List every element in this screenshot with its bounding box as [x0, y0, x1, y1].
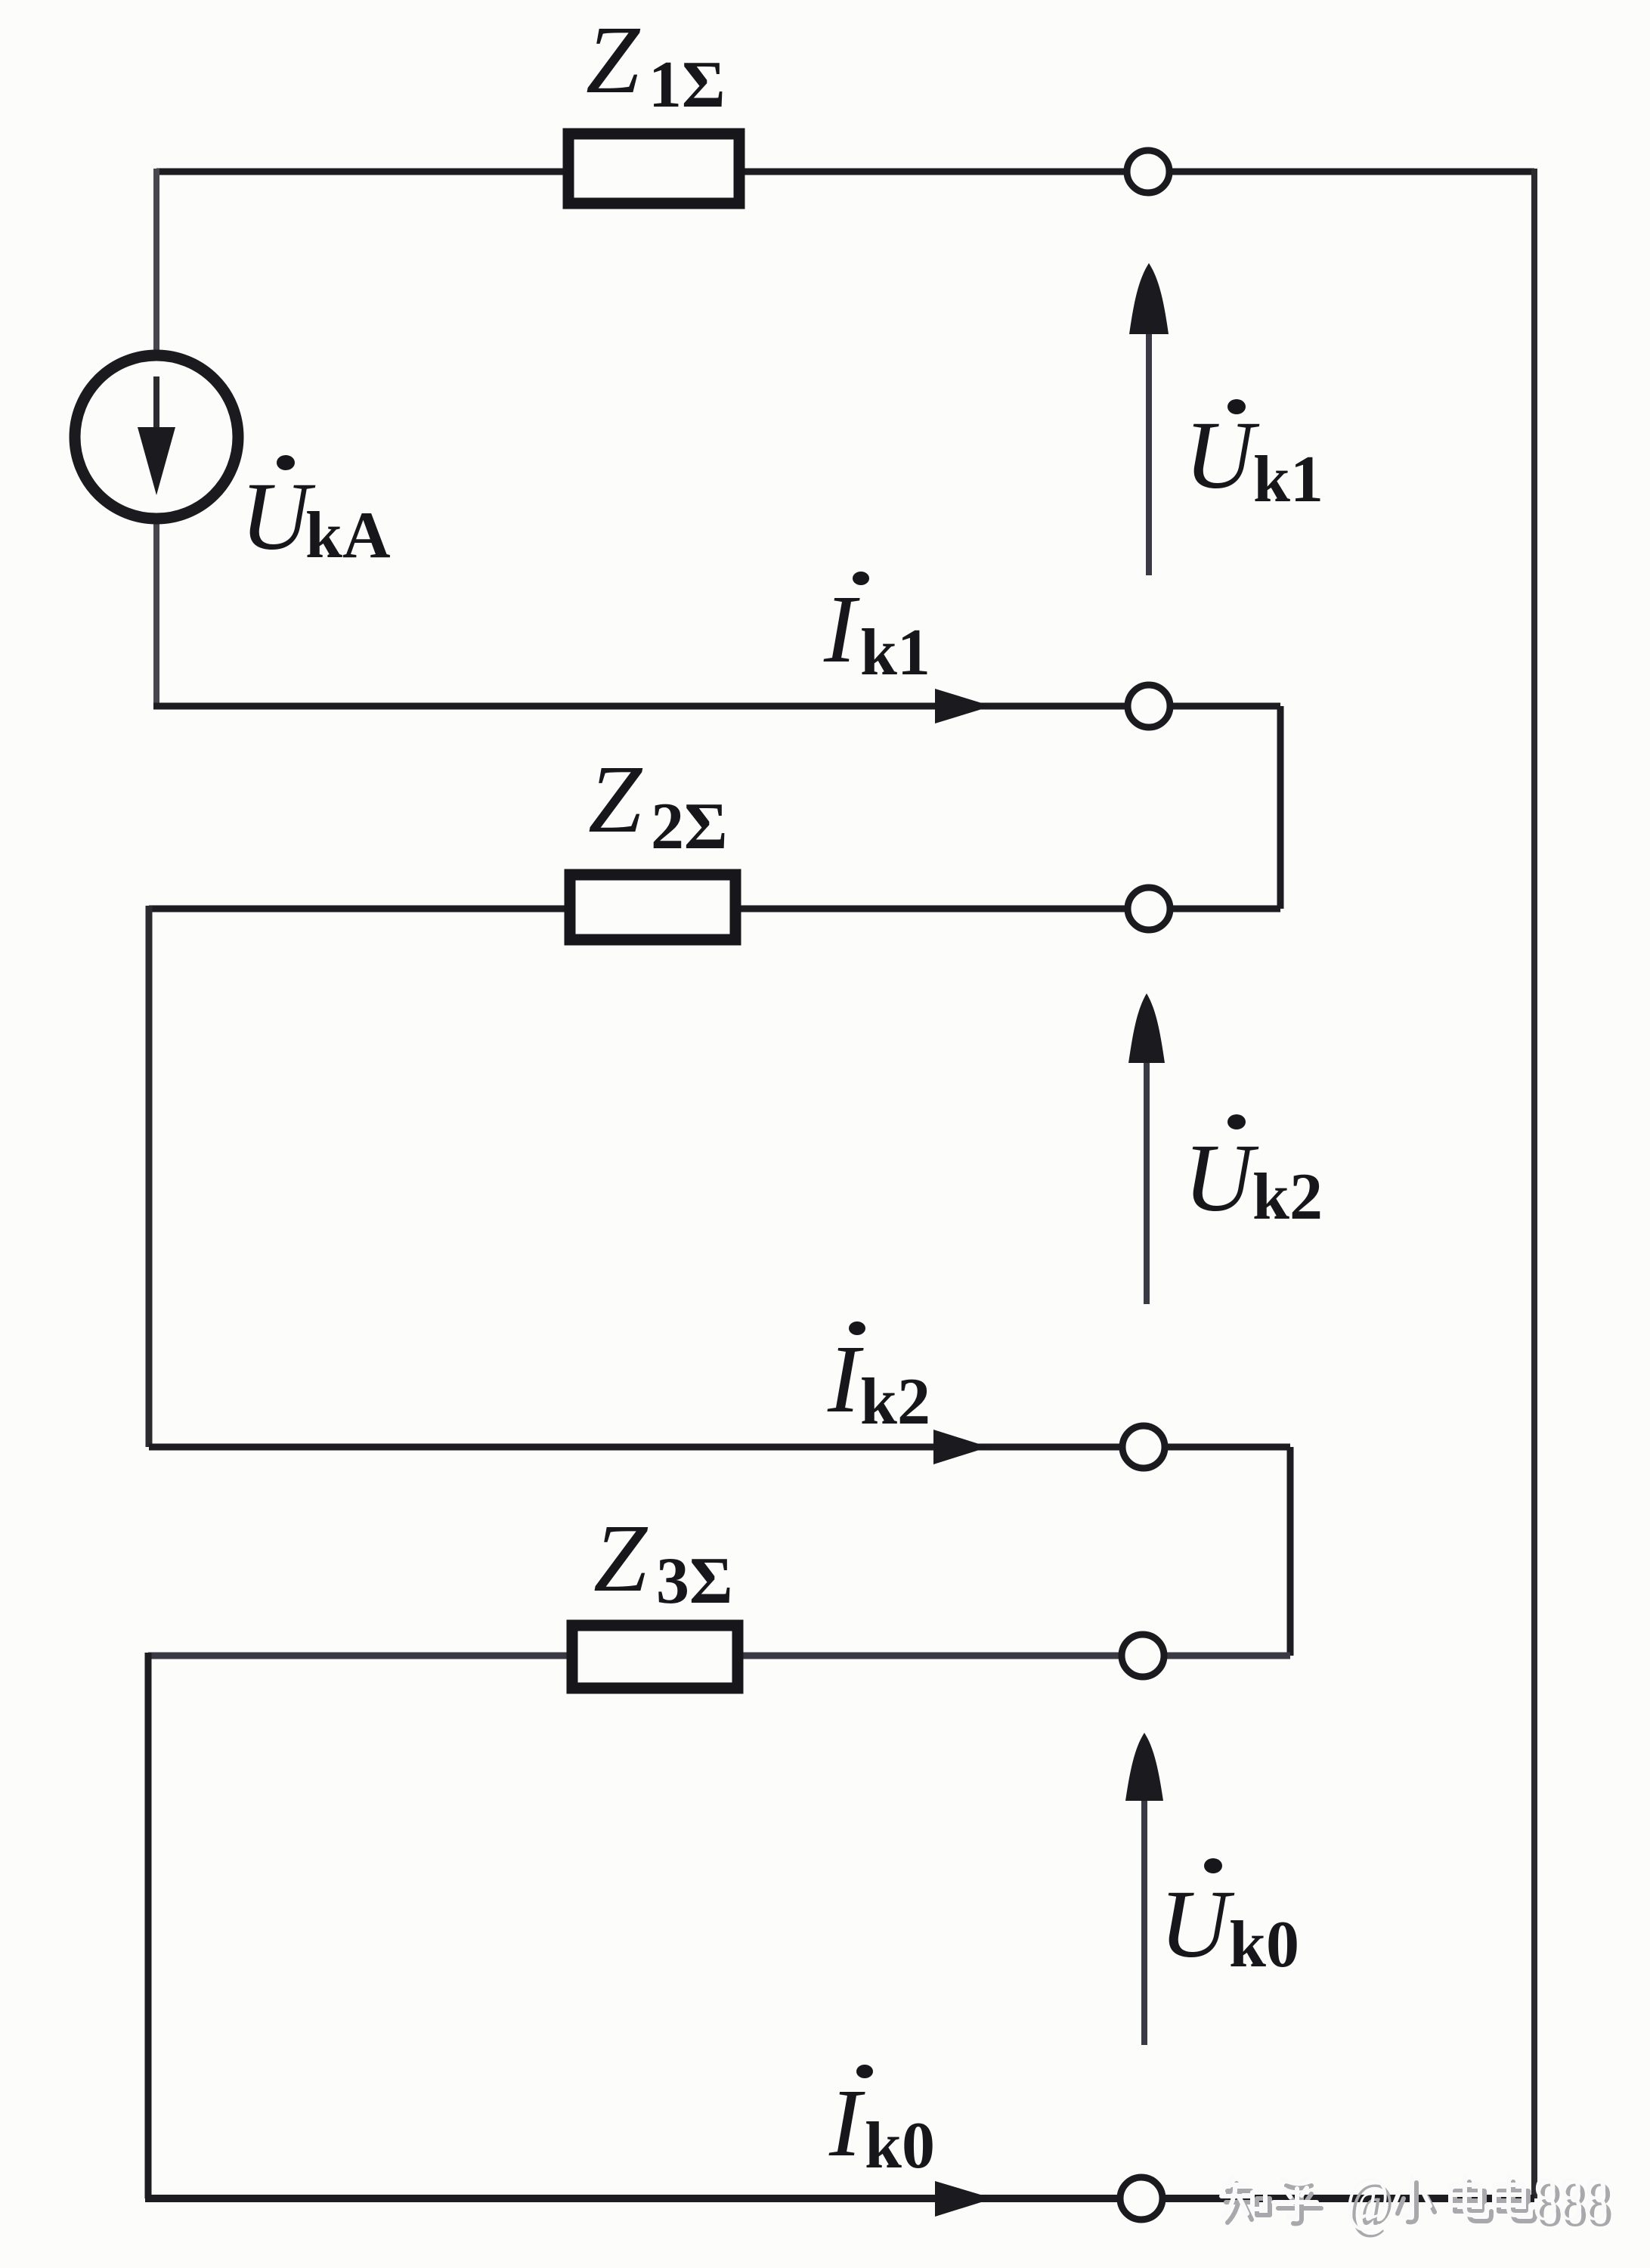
wire Ik2 row	[149, 1444, 1290, 1451]
wire left of loop 3	[145, 1653, 152, 2198]
node N2 (Ik1 row)	[1128, 685, 1170, 727]
svg-text:888: 888	[1533, 2164, 1608, 2234]
svg-text:U: U	[1184, 1124, 1259, 1232]
voltage arrow Uk2	[1128, 993, 1165, 1304]
svg-text:1Σ: 1Σ	[649, 48, 726, 122]
label Uk2	[1184, 1114, 1323, 1234]
label Z2Sigma	[588, 745, 728, 863]
voltage arrow Uk1	[1129, 263, 1169, 575]
svg-text:k0: k0	[865, 2109, 935, 2183]
label Ik0	[828, 2065, 935, 2183]
svg-text:k1: k1	[1253, 443, 1323, 516]
svg-text:Z: Z	[586, 6, 641, 113]
svg-text:U: U	[240, 463, 316, 570]
svg-text:k2: k2	[1252, 1160, 1323, 1234]
wire Ik1 row	[153, 703, 1280, 710]
svg-text:k1: k1	[860, 616, 930, 689]
svg-text:Z: Z	[588, 745, 643, 853]
svg-text:kA: kA	[305, 499, 391, 572]
label UkA	[240, 455, 391, 572]
node N3 (Z2 row)	[1128, 888, 1170, 930]
wire Ik0 bottom row	[145, 2195, 1534, 2202]
voltage arrow Uk0	[1125, 1733, 1163, 2045]
svg-text:k2: k2	[860, 1365, 930, 1439]
wire top rail	[156, 169, 1534, 175]
svg-text:I: I	[823, 575, 860, 683]
watermark zhihu	[1221, 2164, 1613, 2240]
node N1 (top rail)	[1127, 150, 1169, 193]
wire right rail	[1531, 169, 1537, 2198]
wire Z3 row	[148, 1653, 1290, 1659]
svg-text:k0: k0	[1229, 1908, 1299, 1981]
wire jog node1-node2	[1277, 706, 1284, 909]
resistor Z2 box	[570, 875, 735, 940]
label Uk1	[1184, 399, 1323, 516]
svg-text:3Σ: 3Σ	[656, 1545, 733, 1618]
svg-text:I: I	[827, 1325, 864, 1433]
resistor Z3 box	[572, 1625, 738, 1688]
node N4 (Ik2 row)	[1122, 1426, 1165, 1468]
node N6 (Ik0 row)	[1120, 2177, 1162, 2220]
label Ik2	[827, 1321, 930, 1439]
svg-text:Z: Z	[593, 1504, 649, 1612]
current arrow Ik1	[935, 689, 992, 723]
label Z1Sigma	[586, 6, 726, 122]
wire left of loop 1 (source branch)	[153, 169, 159, 706]
label Ik1	[823, 572, 930, 689]
svg-text:U: U	[1159, 1870, 1235, 1978]
svg-text:2Σ: 2Σ	[651, 790, 728, 863]
svg-text:@: @	[1345, 2164, 1389, 2233]
label Z3Sigma	[593, 1504, 733, 1618]
svg-text:I: I	[828, 2069, 865, 2177]
wire Z2 row	[149, 906, 1280, 912]
label Uk0	[1159, 1858, 1299, 1981]
current arrow Ik0	[935, 2181, 993, 2217]
voltage source UkA	[75, 355, 238, 519]
node N5 (Z3 row)	[1122, 1634, 1164, 1677]
wire jog node3-node4	[1287, 1447, 1294, 1656]
resistor Z1 box	[568, 134, 739, 203]
wire left of loop 2	[146, 906, 153, 1447]
current arrow Ik2	[933, 1430, 989, 1464]
svg-text:U: U	[1184, 401, 1260, 509]
